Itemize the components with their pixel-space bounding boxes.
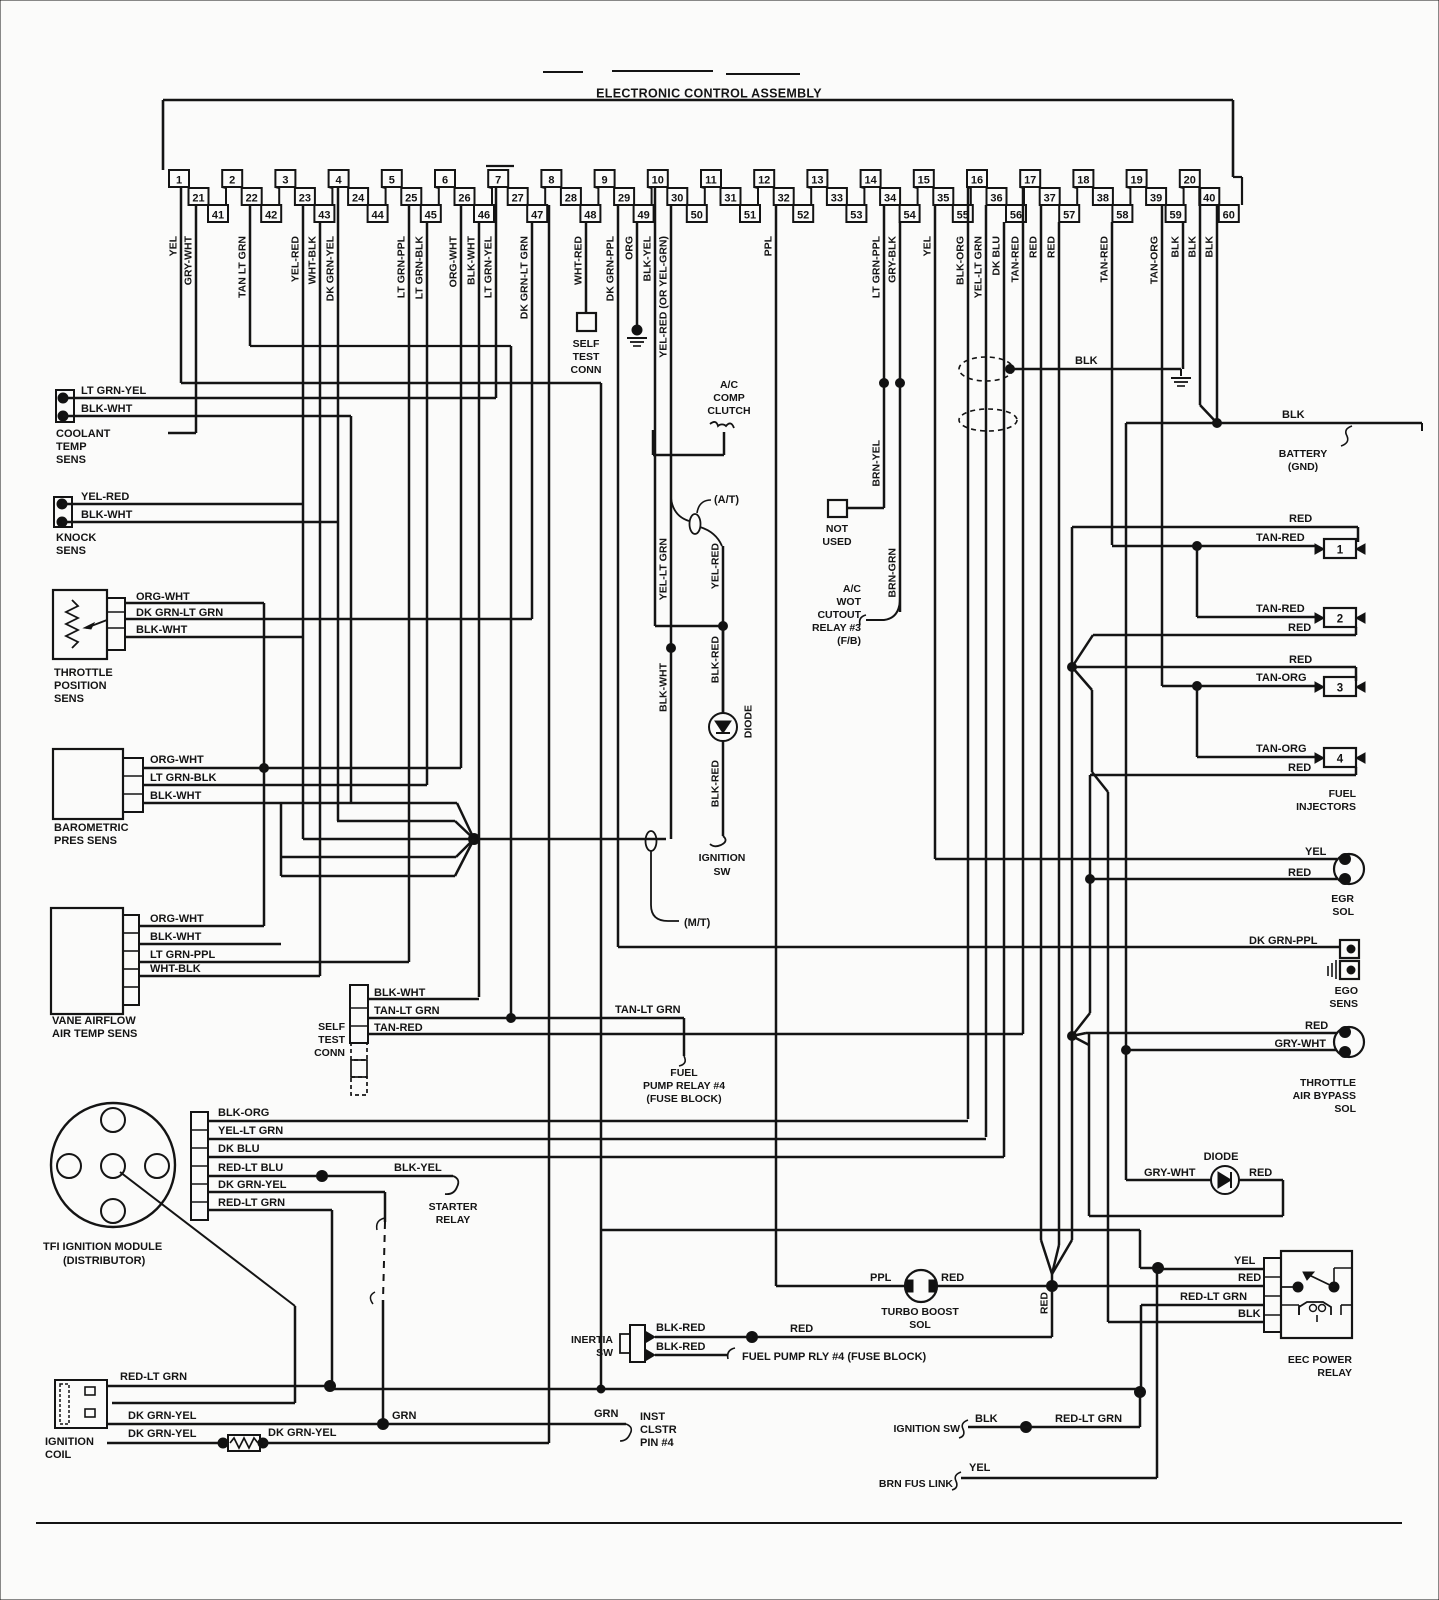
TFI cap tower (113,1166)	[101, 1154, 125, 1178]
pin 5	[382, 170, 402, 187]
pin 57	[1059, 205, 1079, 222]
svg-text:BLK-WHT: BLK-WHT	[81, 403, 133, 415]
svg-text:A/C: A/C	[843, 583, 862, 595]
pin 32 wire PPL	[763, 205, 777, 1286]
svg-text:33: 33	[831, 193, 843, 205]
svg-text:YEL-RED: YEL-RED	[81, 491, 129, 503]
connector steps group 15	[933, 187, 971, 205]
svg-text:(M/T): (M/T)	[684, 917, 711, 929]
TFI DK GRN-YEL drop wire	[370, 1192, 385, 1424]
RED-LT GRN long wire	[330, 1388, 1140, 1391]
svg-text:BLK-WHT: BLK-WHT	[150, 790, 202, 802]
pin 4 wire DK GRN-YEL	[325, 187, 339, 821]
coolant LT GRN-YEL wire	[63, 397, 496, 399]
pin 37 wire RED	[1028, 205, 1042, 1240]
TPS wiper arrow	[84, 620, 107, 629]
svg-text:EGO: EGO	[1335, 985, 1358, 997]
YEL-RED label rot	[710, 543, 722, 590]
TFI DK BLU wire	[208, 1156, 1004, 1158]
junction dot bypass bottom	[1068, 1032, 1077, 1041]
battery brace	[1341, 426, 1352, 446]
self test conn (mid) label	[314, 1021, 345, 1059]
svg-text:15: 15	[918, 175, 930, 187]
fuel injector 2	[1315, 608, 1365, 627]
ignition coil label	[45, 1436, 94, 1461]
BRN-YEL label rot	[871, 439, 883, 486]
svg-text:8: 8	[548, 175, 554, 187]
svg-text:BLK: BLK	[1238, 1308, 1261, 1320]
RED inj2 wire	[1072, 627, 1356, 667]
svg-text:DK GRN-PPL: DK GRN-PPL	[605, 235, 617, 301]
TAN-ORG inj4 drop wire	[1196, 686, 1199, 757]
PPL label	[870, 1272, 892, 1284]
pin 20	[1180, 170, 1200, 187]
pin 1 wire YEL	[168, 187, 182, 383]
BLK-YEL label	[394, 1162, 442, 1174]
pin 22 wire TAN LT GRN	[237, 205, 251, 346]
svg-text:47: 47	[531, 210, 543, 222]
svg-text:POSITION: POSITION	[54, 680, 107, 692]
knock sens label	[56, 532, 96, 557]
pin 23	[295, 188, 315, 205]
svg-text:36: 36	[990, 193, 1002, 205]
connector steps group 6	[455, 187, 493, 205]
connector steps group 5	[401, 187, 439, 205]
self test conn label	[571, 338, 602, 376]
funnel wires	[1041, 1240, 1072, 1337]
junction dot ORG-WHT common	[260, 764, 269, 773]
knock BLK-WHT feed wire	[337, 821, 474, 839]
turbo boost wire RED	[937, 1285, 1264, 1288]
RED label rot funnel	[1039, 1292, 1051, 1315]
svg-text:RED: RED	[790, 1323, 813, 1335]
self test TAN-RED label	[374, 1022, 423, 1034]
TPS connector	[107, 598, 125, 650]
connector steps group 16	[987, 187, 1025, 205]
svg-text:3: 3	[282, 175, 288, 187]
A/C WOT curve wire	[860, 598, 900, 625]
pin 41	[208, 205, 228, 222]
svg-text:TAN-ORG: TAN-ORG	[1256, 672, 1307, 684]
baro LT GRN-BLK label	[150, 772, 216, 784]
svg-text:DIODE: DIODE	[743, 705, 755, 738]
svg-text:CLSTR: CLSTR	[640, 1424, 677, 1436]
throttle air bypass sol symbol	[1334, 1027, 1364, 1058]
svg-text:LT GRN-PPL: LT GRN-PPL	[150, 949, 215, 961]
EEC relay connector	[1264, 1258, 1281, 1332]
pin 17 wire TAN-RED	[1010, 187, 1024, 1034]
pin 49	[634, 205, 654, 222]
svg-text:YEL: YEL	[969, 1462, 991, 1474]
svg-text:BLK-WHT: BLK-WHT	[136, 624, 188, 636]
junction dot pin34	[880, 379, 889, 388]
TFI BLK-ORG wire	[208, 1120, 968, 1122]
fuel injector 3	[1315, 677, 1365, 696]
ignition sw (mid) label	[699, 852, 746, 878]
svg-text:COIL: COIL	[45, 1449, 72, 1461]
svg-text:BLK-WHT: BLK-WHT	[374, 987, 426, 999]
pin 46	[474, 205, 494, 222]
svg-text:RED: RED	[1039, 1292, 1051, 1315]
pin 48 wire WHT-RED	[573, 222, 587, 313]
BLK-WHT label rot	[658, 662, 670, 712]
ignition sw bottom label	[894, 1423, 961, 1435]
svg-text:DIODE: DIODE	[1204, 1151, 1239, 1163]
bypass GRY-WHT wire	[1126, 1049, 1337, 1052]
pin 59 wire BLK	[1170, 222, 1184, 369]
junction dot RED bus	[1068, 663, 1077, 672]
svg-text:25: 25	[405, 193, 417, 205]
pin 31	[721, 188, 741, 205]
connector steps group 4	[348, 187, 386, 205]
vane LT GRN-PPL wire	[139, 961, 409, 963]
coolant temp sens connector	[56, 390, 74, 422]
pin 25 wire LT GRN-PPL	[396, 205, 410, 962]
EGO sens label	[1329, 985, 1358, 1010]
baro BLK-WHT wire	[143, 803, 474, 876]
EGO ground ticks	[1328, 960, 1336, 979]
RED label inertia	[790, 1323, 813, 1335]
svg-text:TAN-RED: TAN-RED	[1256, 532, 1305, 544]
TFI distributor circle	[51, 1103, 175, 1227]
svg-text:YEL-LT GRN: YEL-LT GRN	[973, 236, 985, 298]
pin 25	[401, 188, 421, 205]
vane BLK-WHT label	[150, 931, 202, 943]
BLK ground wire	[1008, 368, 1181, 371]
svg-text:42: 42	[265, 210, 277, 222]
svg-text:EEC POWER: EEC POWER	[1288, 1354, 1353, 1366]
pin 55	[953, 205, 973, 222]
TPS ORG-WHT wire	[125, 602, 264, 604]
EGO sens connector	[1340, 940, 1359, 979]
RED inj3 wire	[1072, 667, 1356, 681]
svg-text:DK GRN-YEL: DK GRN-YEL	[325, 235, 337, 301]
svg-text:6: 6	[442, 175, 448, 187]
throttle position sens box	[53, 590, 107, 659]
dashed oval connector 2	[959, 409, 1017, 431]
ignition sw hook wire	[710, 741, 726, 846]
svg-text:PUMP RELAY #4: PUMP RELAY #4	[643, 1080, 725, 1092]
ignition coil box	[55, 1380, 107, 1428]
pin 7 wire LT GRN-YEL	[483, 187, 497, 398]
svg-text:DK BLU: DK BLU	[991, 236, 1003, 276]
svg-text:60: 60	[1223, 210, 1235, 222]
svg-text:GRY-BLK: GRY-BLK	[887, 236, 899, 283]
svg-text:BRN-YEL: BRN-YEL	[871, 439, 883, 486]
pin 17	[1020, 170, 1040, 187]
EEC YEL feed wire	[601, 1230, 1158, 1268]
starter relay hook	[445, 1176, 458, 1194]
coil RED-LT GRN label	[120, 1371, 187, 1383]
vane label	[52, 1015, 137, 1040]
fuel injector 1	[1315, 539, 1365, 558]
pin 46 wire BLK-WHT	[466, 222, 480, 997]
EGR YEL label	[1305, 846, 1327, 858]
knock BLK-WHT label	[81, 509, 133, 521]
svg-text:34: 34	[884, 193, 897, 205]
svg-text:DK GRN-YEL: DK GRN-YEL	[128, 1410, 197, 1422]
RED inj1 wire	[1072, 527, 1358, 542]
svg-text:BATTERY: BATTERY	[1279, 448, 1327, 460]
svg-text:LT GRN-PPL: LT GRN-PPL	[396, 235, 408, 298]
svg-text:52: 52	[797, 210, 809, 222]
vane WHT-BLK label	[150, 963, 201, 975]
svg-text:32: 32	[778, 193, 790, 205]
svg-text:YEL-RED: YEL-RED	[710, 543, 722, 590]
pin 39	[1146, 188, 1166, 205]
TFI cap tower (69,1166)	[57, 1154, 81, 1178]
pin 58	[1112, 205, 1132, 222]
self test BLK-WHT label	[374, 987, 426, 999]
svg-text:SW: SW	[596, 1347, 613, 1359]
svg-text:BLK: BLK	[1282, 409, 1305, 421]
TAN-ORG inj4 wire	[1197, 756, 1315, 759]
svg-text:2: 2	[229, 175, 235, 187]
ground symbol right	[1171, 369, 1191, 386]
svg-text:9: 9	[602, 175, 608, 187]
svg-text:NOT: NOT	[826, 523, 849, 535]
svg-text:TAN-RED: TAN-RED	[1010, 236, 1022, 283]
junction dot ign sw	[1021, 1422, 1032, 1433]
pin 42	[261, 205, 281, 222]
pin 30	[667, 188, 687, 205]
pin 58 wire TAN-RED	[1099, 222, 1113, 545]
EEC YEL label	[1234, 1255, 1256, 1267]
svg-text:13: 13	[811, 175, 823, 187]
RED inj2 label	[1288, 622, 1311, 634]
pin 7	[488, 170, 508, 187]
svg-text:5: 5	[389, 175, 395, 187]
pin 40 wire BLK	[1204, 205, 1218, 423]
svg-text:DK GRN-YEL: DK GRN-YEL	[128, 1428, 197, 1440]
svg-text:54: 54	[903, 210, 916, 222]
svg-text:FUEL: FUEL	[670, 1067, 698, 1079]
pin 47	[527, 205, 547, 222]
svg-text:RED: RED	[1028, 236, 1040, 259]
svg-text:FUEL PUMP RLY #4 (FUSE BLOCK): FUEL PUMP RLY #4 (FUSE BLOCK)	[742, 1351, 927, 1363]
pin 24	[348, 188, 368, 205]
svg-text:LT GRN-BLK: LT GRN-BLK	[150, 772, 216, 784]
svg-text:DK GRN-LT GRN: DK GRN-LT GRN	[519, 236, 531, 319]
pin 52	[793, 205, 813, 222]
(M/T) label	[684, 917, 711, 929]
junction dot TAN-RED	[1193, 542, 1202, 551]
pin 22	[242, 188, 262, 205]
svg-text:VANE AIRFLOW: VANE AIRFLOW	[52, 1015, 136, 1027]
EEC RED label	[1238, 1272, 1261, 1284]
resistor	[218, 1435, 268, 1451]
diode RED label	[1249, 1167, 1272, 1179]
self test conn (pin 48) box	[577, 313, 596, 331]
pin 36	[987, 188, 1007, 205]
brn fus link YEL wire	[961, 1477, 1157, 1480]
svg-text:YEL-LT GRN: YEL-LT GRN	[658, 538, 670, 600]
svg-text:BLK-WHT: BLK-WHT	[658, 662, 670, 712]
svg-text:RED: RED	[1288, 622, 1311, 634]
svg-text:PPL: PPL	[763, 235, 775, 256]
RED label turbo	[941, 1272, 964, 1284]
pin 28	[561, 188, 581, 205]
svg-text:14: 14	[864, 175, 877, 187]
svg-text:LT GRN-YEL: LT GRN-YEL	[483, 235, 495, 298]
pin 48	[580, 205, 600, 222]
RED-LT GRN bottom label	[1055, 1413, 1122, 1425]
diode A/C	[709, 626, 737, 741]
pin 12	[754, 170, 774, 187]
TPS DK GRN-LT GRN label	[136, 607, 223, 619]
svg-text:1: 1	[1337, 545, 1344, 557]
junction dot coil RED-LT GRN	[325, 1381, 336, 1392]
A/T branch curve	[671, 498, 722, 546]
svg-text:BLK-ORG: BLK-ORG	[955, 236, 967, 285]
svg-text:ORG-WHT: ORG-WHT	[150, 913, 204, 925]
svg-text:RED: RED	[941, 1272, 964, 1284]
svg-text:TURBO BOOST: TURBO BOOST	[881, 1306, 959, 1318]
connector steps group 11	[721, 187, 759, 205]
pin 35	[933, 188, 953, 205]
svg-text:ELECTRONIC CONTROL ASSEMBLY: ELECTRONIC CONTROL ASSEMBLY	[596, 87, 822, 101]
inst clstr hook	[620, 1424, 631, 1441]
EEC RED-LT GRN label	[1180, 1291, 1247, 1303]
BLK-RED label rot 2	[710, 760, 722, 808]
EEC BLK label	[1238, 1308, 1261, 1320]
svg-text:GRN: GRN	[594, 1408, 619, 1420]
pin 10 wire BLK-YEL	[642, 187, 656, 626]
throttle air bypass sol label	[1293, 1077, 1357, 1115]
TPS BLK-WHT feed wire	[303, 838, 666, 841]
svg-text:THROTTLE: THROTTLE	[54, 667, 113, 679]
TFI cap tower (113,1120)	[101, 1108, 125, 1132]
EGR YEL wire	[935, 858, 1337, 861]
ECA (Electronic Control Assembly) box outline	[163, 100, 1242, 205]
svg-text:20: 20	[1184, 175, 1196, 187]
GRY-WHT stub wire	[168, 432, 196, 435]
brn fus link label	[879, 1478, 953, 1490]
ignition sw connector oval	[646, 831, 657, 851]
EEC power relay label	[1288, 1354, 1353, 1379]
pin 43	[314, 205, 334, 222]
vane WHT-BLK wire	[139, 975, 320, 977]
svg-text:PPL: PPL	[870, 1272, 892, 1284]
pin 28 wire	[548, 205, 551, 1443]
EGR sol symbol	[1334, 854, 1364, 885]
connector steps group 20	[1199, 187, 1219, 205]
svg-text:16: 16	[971, 175, 983, 187]
EGR RED label	[1288, 867, 1311, 879]
inertia sw symbol	[620, 1325, 655, 1362]
baro ORG-WHT wire	[143, 767, 461, 769]
connector steps group 9	[614, 187, 652, 205]
ECA title	[596, 87, 822, 101]
vane connector	[123, 915, 139, 1005]
junction dot inertia RED	[747, 1332, 758, 1343]
svg-text:ORG-WHT: ORG-WHT	[150, 754, 204, 766]
pin 19	[1127, 170, 1147, 187]
connector steps group 3	[295, 187, 333, 205]
pin 1	[169, 170, 189, 187]
svg-text:SELF: SELF	[573, 338, 600, 350]
svg-text:BRN FUS LINK: BRN FUS LINK	[879, 1478, 953, 1490]
svg-text:DK GRN-LT GRN: DK GRN-LT GRN	[136, 607, 223, 619]
pin 26	[455, 188, 475, 205]
svg-text:PIN #4: PIN #4	[640, 1437, 675, 1449]
pin 45	[421, 205, 441, 222]
TFI label	[43, 1241, 162, 1267]
knock YEL-RED label	[81, 491, 129, 503]
diode right symbol	[1211, 1166, 1239, 1194]
TAN-RED inj2 label	[1256, 603, 1305, 615]
pin 2	[222, 170, 242, 187]
svg-text:CLUTCH: CLUTCH	[707, 405, 750, 417]
svg-text:28: 28	[565, 193, 577, 205]
connector steps group 12	[774, 187, 812, 205]
svg-text:49: 49	[637, 210, 649, 222]
pin 60	[1219, 205, 1239, 222]
svg-text:RED: RED	[1289, 654, 1312, 666]
svg-text:3: 3	[1337, 683, 1343, 695]
pin 36 wire YEL-LT GRN	[973, 205, 987, 1137]
svg-text:(DISTRIBUTOR): (DISTRIBUTOR)	[63, 1255, 146, 1267]
resistor out wire	[263, 1442, 549, 1445]
svg-text:(A/T): (A/T)	[714, 494, 739, 506]
self test BLK-WHT wire	[368, 998, 479, 1001]
pin 29 wire DK GRN-PPL	[605, 205, 619, 947]
svg-text:45: 45	[425, 210, 437, 222]
A/C comp clutch label	[707, 379, 750, 417]
brn fus hook	[952, 1472, 961, 1490]
vane LT GRN-PPL label	[150, 949, 215, 961]
svg-text:11: 11	[705, 175, 717, 187]
(A/T) label	[714, 494, 739, 506]
pin 57 wire RED	[1046, 222, 1060, 1245]
junction dot GRY-WHT	[1122, 1046, 1131, 1055]
GRY-WHT vertical wire	[1125, 423, 1128, 1180]
svg-text:USED: USED	[822, 536, 852, 548]
svg-text:LT GRN-BLK: LT GRN-BLK	[414, 236, 426, 300]
inertia BLK-RED bottom wire	[655, 1348, 735, 1359]
svg-text:LT GRN-PPL: LT GRN-PPL	[871, 235, 883, 298]
svg-text:37: 37	[1044, 193, 1056, 205]
svg-text:BLK-YEL: BLK-YEL	[642, 235, 654, 281]
A/C clutch wires	[653, 430, 724, 455]
baro label	[54, 822, 129, 847]
turbo boost sol label	[881, 1306, 959, 1331]
TPS BLK-WHT label	[136, 624, 188, 636]
pin 21	[189, 188, 209, 205]
svg-text:TAN-RED: TAN-RED	[374, 1022, 423, 1034]
svg-text:STARTER: STARTER	[429, 1201, 478, 1213]
svg-text:YEL: YEL	[168, 235, 180, 256]
svg-text:KNOCK: KNOCK	[56, 532, 96, 544]
TAN-RED inj2 drop wire	[1196, 546, 1199, 617]
svg-text:TAN-RED: TAN-RED	[1099, 236, 1111, 283]
coil RED-LT GRN wire	[107, 1385, 330, 1388]
YEL-LT GRN label	[658, 538, 670, 600]
resistor DK GRN-YEL label	[268, 1427, 337, 1439]
svg-text:RED: RED	[1288, 762, 1311, 774]
vane airflow box	[51, 908, 123, 1014]
pin 3	[275, 170, 295, 187]
connector steps group 2	[242, 187, 280, 205]
TFI RED-LT GRN label	[218, 1197, 285, 1209]
svg-text:58: 58	[1116, 210, 1128, 222]
BRN FUS LINK riser wire	[1156, 1268, 1159, 1478]
pin 39 wire TAN-ORG	[1149, 205, 1163, 686]
coil DK GRN-YEL wire	[107, 1423, 626, 1426]
knock BLK-WHT wire	[62, 521, 337, 523]
TFI YEL-LT GRN wire	[208, 1138, 986, 1140]
pin 38	[1093, 188, 1113, 205]
